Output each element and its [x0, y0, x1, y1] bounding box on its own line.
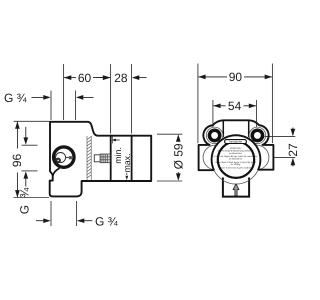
G 3/4 top dimension extension line right: [75, 91, 77, 121]
left port ring: [209, 130, 219, 140]
right port ring: [252, 130, 262, 140]
dimension 60 line with arrows: [64, 75, 110, 80]
flange circle diameter 59 visible arc: [212, 135, 261, 170]
dimension 96 bottom extension line: [14, 197, 50, 199]
svg-text:G: G: [17, 205, 31, 214]
dimension 54 extension line left: [212, 100, 214, 127]
svg-text:an Spremzee: an Spremzee: [229, 152, 243, 155]
dimension 54 extension line right: [256, 100, 258, 127]
svg-text:96: 96: [10, 154, 24, 168]
svg-text:ter sfitting: ter sfitting: [231, 163, 241, 166]
svg-text:28: 28: [114, 71, 128, 85]
hansgrohe pill logo: [225, 140, 247, 144]
diameter 59 bottom extension line: [157, 180, 182, 182]
dimension 96 top extension line: [14, 120, 50, 122]
port boss to foot curve: [53, 168, 60, 176]
dimension 60 extension line left (port axis): [63, 64, 65, 120]
svg-text:G ¾: G ¾: [95, 214, 119, 228]
svg-text:hansgrohe: hansgrohe: [229, 141, 242, 144]
diameter 59 dimension line with arrows: [176, 134, 181, 180]
cartridge back face line: [110, 135, 112, 181]
svg-text:¾: ¾: [17, 187, 31, 198]
G 3/4 top dimension extension line left: [50, 91, 52, 121]
sticker micro text: [214, 147, 258, 170]
port boss dimension lower extension line: [22, 170, 38, 172]
bottom tailpiece: [223, 178, 249, 197]
dimension 28 line with outside arrows: [96, 75, 147, 80]
svg-text:60: 60: [78, 71, 92, 85]
front view body outline: [199, 120, 274, 170]
valve body side view outline: [50, 122, 152, 197]
flange circle white fill: [212, 135, 261, 184]
port boss dimension lower arrow (up): [23, 171, 28, 186]
top plate right edge: [248, 120, 250, 137]
cartridge front face line: [131, 135, 133, 181]
side view port ring: [54, 147, 74, 167]
svg-text:max.: max.: [122, 153, 132, 172]
svg-text:ze Nooritzeve: ze Nooritzeve: [229, 158, 243, 161]
min annotation arrow: [112, 137, 120, 144]
tailpiece flow arrow: [233, 184, 239, 196]
dimension 60/28 shared extension line: [110, 64, 112, 134]
dimension 27 top extension line: [265, 135, 296, 137]
flange circle hidden arc: [214, 170, 258, 184]
svg-text:zorze ili zet terst in gels vi: zorze ili zet terst in gels vicollest: [220, 167, 252, 170]
port boss dimension upper extension line: [22, 144, 38, 146]
svg-text:54: 54: [228, 99, 242, 113]
dimension 54 line with arrows: [213, 103, 256, 108]
wall hatch strip: [87, 136, 91, 181]
threaded spindle: [100, 154, 110, 163]
left wing hidden circle: [203, 145, 228, 170]
svg-text:G ¾: G ¾: [4, 91, 28, 105]
port glyph stub: [66, 157, 70, 159]
right wing hidden circle: [244, 145, 269, 170]
dimension 90 extension line left: [197, 64, 199, 144]
port inner glyph circle: [56, 153, 66, 163]
svg-text:MONTAGE: MONTAGE: [230, 147, 241, 150]
dimension 27 line with arrows: [291, 128, 296, 167]
port boss dimension upper arrow (down): [23, 127, 28, 145]
left port boss thin circle: [206, 127, 223, 144]
G 3/4 top dimension arrows: [32, 95, 94, 100]
svg-text:Ø 59: Ø 59: [172, 143, 186, 169]
port glyph small circle: [56, 159, 60, 163]
dimension 90 extension line right: [271, 64, 273, 144]
port glyph square: [69, 156, 72, 159]
top plate left edge: [222, 120, 224, 137]
max annotation arrow: [125, 173, 128, 180]
bottom G 3/4 dimension arrows: [36, 218, 92, 223]
dimension 96 line with arrows: [15, 121, 20, 197]
bottom G 3/4 dimension left extension line: [50, 201, 52, 226]
right port boss thin circle: [249, 127, 266, 144]
sticker circle: [218, 142, 254, 178]
svg-text:27: 27: [286, 143, 300, 157]
dimension 28 right extension line: [131, 64, 133, 134]
spindle tip block: [94, 155, 100, 162]
bottom G 3/4 dimension right extension line: [76, 201, 78, 226]
diameter 59 top extension line: [157, 133, 182, 135]
dimension 90 line with arrows: [198, 75, 272, 80]
dimension 27 bottom extension line: [274, 157, 296, 159]
svg-text:90: 90: [229, 70, 243, 84]
